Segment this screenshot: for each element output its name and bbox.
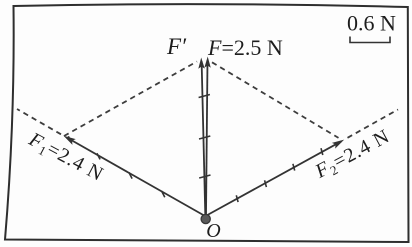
dashed side F1tip to apex bbox=[64, 62, 197, 137]
dashed extension of F2 beyond tip bbox=[348, 110, 399, 138]
F2 tick 1 bbox=[236, 195, 238, 202]
F tick 1 bbox=[199, 175, 210, 178]
svg-text:F′: F′ bbox=[166, 34, 187, 59]
vector F' arrowhead bbox=[198, 57, 205, 68]
F tick 3 bbox=[199, 95, 210, 98]
vector F shaft (measured resultant) bbox=[206, 60, 208, 215]
dashed extension of F1 beyond tip bbox=[17, 109, 61, 134]
F1 tick 2 bbox=[129, 172, 132, 178]
vector F arrowhead bbox=[204, 56, 211, 67]
vector F2 shaft bbox=[207, 141, 342, 215]
svg-text:0.6 N: 0.6 N bbox=[347, 11, 396, 36]
F2 tick 2 bbox=[265, 180, 267, 187]
scale bar bracket bbox=[350, 37, 390, 43]
vector F2 arrowhead bbox=[332, 137, 346, 149]
point O bbox=[201, 214, 210, 223]
dashed side apex to F2tip bbox=[212, 62, 339, 138]
svg-text:F2=2.4 N: F2=2.4 N bbox=[311, 125, 395, 185]
F1 tick 3 bbox=[97, 153, 100, 159]
vector F' shaft (parallelogram resultant) bbox=[202, 61, 206, 215]
vector F1 arrowhead bbox=[62, 133, 76, 145]
F tick 2 bbox=[199, 136, 210, 139]
svg-text:O: O bbox=[206, 220, 220, 242]
F2 tick 3 bbox=[293, 164, 295, 171]
F2 tick 4 bbox=[321, 148, 323, 155]
vector F1 shaft bbox=[67, 137, 206, 216]
svg-text:F=2.5 N: F=2.5 N bbox=[207, 35, 283, 60]
F1 tick 4 bbox=[68, 136, 71, 142]
F1 tick 1 bbox=[162, 191, 165, 197]
